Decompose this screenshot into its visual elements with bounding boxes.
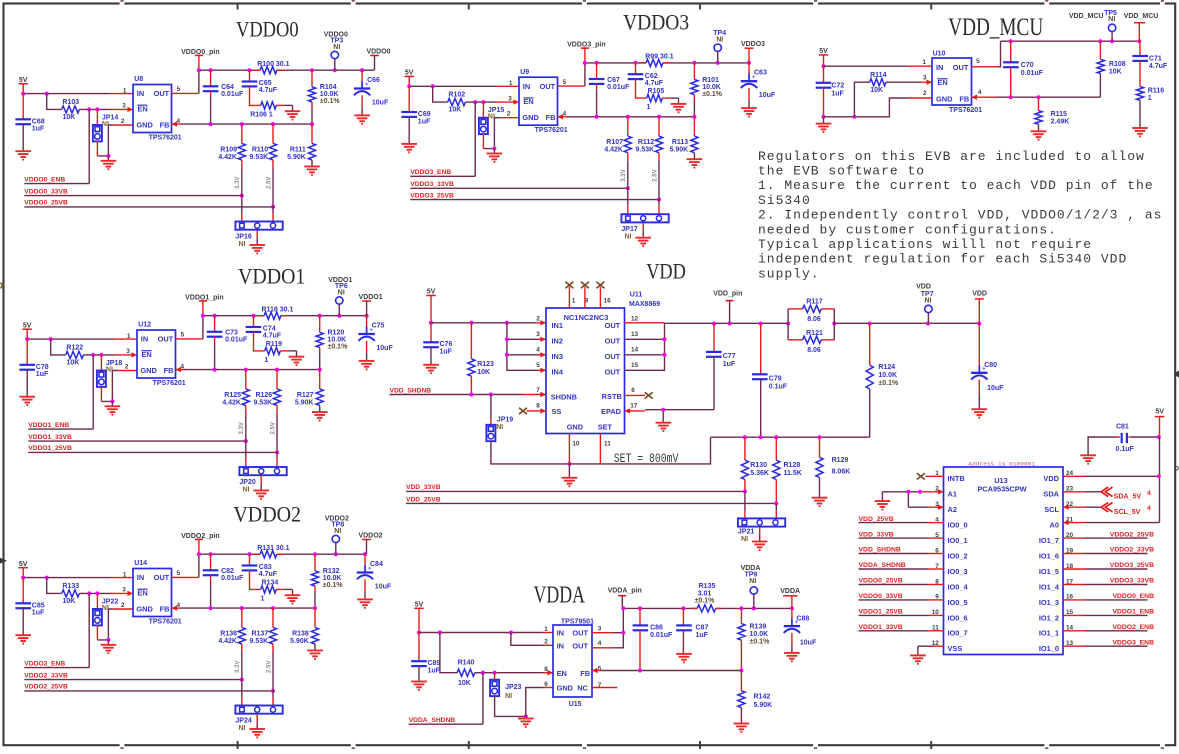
svg-text:12: 12: [631, 316, 639, 323]
svg-text:10uF: 10uF: [800, 639, 817, 646]
svg-text:JP24: JP24: [235, 718, 251, 725]
jumper JP21 NI: [738, 518, 785, 526]
svg-text:C79: C79: [769, 375, 782, 382]
resistor R102: [448, 99, 466, 106]
svg-text:R101: R101: [702, 77, 719, 84]
svg-text:NI: NI: [741, 536, 748, 543]
resistor R140 10K: [457, 669, 475, 676]
capacitor C85: [22, 578, 24, 604]
resistor R125 4.42K: [245, 370, 247, 389]
junction: [313, 552, 317, 556]
junction: [91, 353, 95, 357]
svg-text:8.06: 8.06: [807, 347, 821, 354]
svg-text:11: 11: [604, 441, 611, 448]
svg-text:2.5V: 2.5V: [270, 422, 276, 434]
svg-text:R130: R130: [750, 462, 767, 469]
svg-text:IN4: IN4: [552, 368, 564, 377]
svg-text:U10: U10: [933, 51, 946, 58]
ground: [307, 651, 323, 659]
no-connect NC2: [584, 287, 586, 308]
jumper JP17 NI: [621, 214, 668, 222]
svg-text:5: 5: [976, 58, 980, 65]
svg-text:VDDO1: VDDO1: [359, 294, 383, 301]
junction: [638, 669, 642, 673]
svg-text:0.01uF: 0.01uF: [221, 575, 244, 582]
svg-text:JP23: JP23: [505, 684, 521, 691]
junction: [1009, 95, 1013, 99]
capacitor C68: [22, 94, 24, 120]
svg-text:OUT: OUT: [572, 629, 588, 638]
junction: [743, 489, 747, 493]
wire 5V rail: [824, 65, 909, 67]
junction: [492, 147, 496, 151]
ground: [260, 476, 262, 484]
svg-text:SET = 800mV: SET = 800mV: [614, 452, 679, 466]
junction: [25, 337, 29, 341]
svg-text:VDDO2_25VB: VDDO2_25VB: [24, 684, 68, 691]
svg-text:0.1uF: 0.1uF: [1116, 446, 1135, 453]
svg-text:±0.1%: ±0.1%: [750, 638, 771, 645]
svg-text:4: 4: [978, 89, 982, 96]
svg-text:IO0_1: IO0_1: [948, 536, 968, 545]
svg-text:C78: C78: [36, 364, 49, 371]
svg-text:VDD: VDD: [916, 284, 931, 291]
svg-text:10K: 10K: [477, 369, 490, 376]
svg-text:R126: R126: [255, 392, 272, 399]
junction: [438, 631, 442, 635]
wire output rail: [665, 322, 789, 324]
wire: [823, 55, 825, 66]
svg-text:0.01uF: 0.01uF: [221, 91, 244, 98]
offpage SDA_5V: [1101, 487, 1113, 496]
pin arrow FB: [172, 605, 178, 610]
capacitor C74 4.7uF: [253, 316, 255, 327]
svg-text:3: 3: [536, 331, 540, 338]
junction: [240, 606, 244, 610]
svg-text:R138: R138: [292, 630, 309, 637]
junction: [21, 92, 25, 96]
ground: [734, 724, 750, 732]
svg-text:10K: 10K: [66, 359, 79, 366]
svg-text:9.53K: 9.53K: [636, 147, 655, 154]
junction: [774, 501, 778, 505]
svg-text:5.90K: 5.90K: [670, 147, 689, 154]
notes text: [758, 149, 1162, 282]
svg-text:R103: R103: [62, 99, 79, 106]
ground: [676, 654, 692, 662]
regulator U15 TPS79501: [553, 625, 592, 697]
wire FB rail: [172, 123, 182, 125]
svg-text:R102: R102: [448, 92, 465, 99]
resistor R105 1: [647, 95, 663, 102]
ground: [296, 351, 298, 357]
wire: [100, 386, 102, 401]
no-connect RSTB pin 6: [625, 394, 646, 396]
svg-text:JP19: JP19: [497, 417, 513, 424]
resistor R118 30.1: [264, 312, 281, 319]
jumper JP14 NI: [96, 109, 98, 125]
junction: [271, 122, 275, 126]
svg-text:R106 1: R106 1: [250, 111, 273, 118]
svg-text:10.0K: 10.0K: [320, 91, 339, 98]
svg-text:FB: FB: [160, 121, 170, 130]
svg-text:14: 14: [631, 347, 639, 354]
svg-text:VSS: VSS: [948, 644, 963, 653]
svg-text:2: 2: [544, 639, 548, 646]
svg-text:SCL_5V: SCL_5V: [1114, 509, 1141, 516]
svg-text:IO1_6: IO1_6: [1039, 551, 1059, 560]
svg-text:OUT: OUT: [540, 82, 556, 91]
svg-text:R127: R127: [297, 392, 314, 399]
svg-text:VDD_MCU: VDD_MCU: [1124, 13, 1159, 20]
junction: [271, 689, 275, 693]
ground: [1080, 455, 1096, 463]
junction: [692, 61, 696, 65]
junction: [657, 198, 661, 202]
wire: [475, 672, 543, 674]
svg-text:C65: C65: [259, 80, 272, 87]
junction: [95, 591, 99, 595]
svg-text:C64: C64: [221, 84, 234, 91]
svg-text:U12: U12: [138, 322, 151, 329]
junction: [431, 84, 435, 88]
svg-text:VDDA: VDDA: [534, 581, 586, 608]
svg-text:R134: R134: [262, 579, 279, 586]
junction: [489, 393, 493, 397]
frame tick: [468, 5, 470, 10]
junction: [252, 314, 256, 318]
svg-text:C63: C63: [754, 70, 767, 77]
wire VDD pin 24: [1063, 475, 1085, 477]
capacitor C65 4.7uF: [249, 70, 251, 81]
wire GND pin 2: [113, 608, 133, 610]
junction: [360, 68, 364, 72]
ground: [687, 159, 703, 167]
wire: [408, 77, 410, 86]
svg-text:VDDO2: VDDO2: [233, 502, 301, 527]
svg-text:R109: R109: [220, 146, 237, 153]
svg-text:MAX8869: MAX8869: [629, 301, 660, 308]
svg-text:VDDO3_33VB: VDDO3_33VB: [410, 181, 454, 188]
svg-text:R112: R112: [638, 139, 654, 146]
svg-text:TPS76201: TPS76201: [535, 127, 568, 134]
svg-text:3.3V: 3.3V: [235, 177, 241, 189]
junction: [661, 408, 665, 412]
svg-text:VDD_33VB: VDD_33VB: [406, 484, 441, 491]
svg-text:5V: 5V: [1156, 409, 1165, 416]
junction: [469, 321, 473, 325]
ground: [642, 223, 644, 231]
resistor R113 5.90K: [693, 117, 695, 136]
svg-text:R142: R142: [754, 693, 771, 700]
svg-text:5V: 5V: [405, 70, 414, 77]
wire GND pin 6: [526, 688, 543, 717]
svg-text:1. Measure the current to each: 1. Measure the current to each VDD pin o…: [758, 178, 1154, 193]
regulator U12 TPS76201: [137, 330, 176, 378]
junction: [213, 314, 217, 318]
svg-text:NI: NI: [243, 486, 250, 493]
regulator U14 TPS76201: [133, 569, 172, 617]
wire: [495, 696, 526, 717]
svg-text:R117: R117: [806, 299, 822, 306]
pin arrow EN: [127, 591, 133, 596]
svg-text:VDD_25VB: VDD_25VB: [406, 496, 441, 503]
resistor R137 9.53K: [272, 608, 274, 627]
ground: [19, 397, 35, 405]
svg-text:10K: 10K: [62, 598, 75, 605]
svg-text:IO1_1: IO1_1: [1039, 629, 1059, 638]
svg-text:NI: NI: [749, 578, 756, 585]
svg-text:NI: NI: [496, 424, 503, 431]
junction: [209, 122, 213, 126]
svg-text:R120: R120: [328, 330, 345, 337]
ground: [359, 361, 375, 369]
junction: [275, 450, 279, 454]
wire OUT pin 5: [172, 92, 199, 94]
svg-text:VDDO1_ENB: VDDO1_ENB: [1112, 609, 1154, 616]
resistor R117 8.06: [787, 309, 789, 340]
svg-text:10uF: 10uF: [759, 92, 776, 99]
svg-text:C76: C76: [440, 341, 453, 348]
jumper JP16 NI: [235, 222, 282, 230]
svg-text:IO0_0: IO0_0: [948, 521, 968, 530]
ground: [15, 151, 31, 159]
svg-text:R108: R108: [1109, 61, 1126, 68]
wire: [276, 104, 285, 106]
jumper JP15 NI: [482, 102, 484, 118]
resistor R139 10.0K: [740, 608, 742, 623]
net VDDO3_ENB: [474, 102, 476, 176]
svg-text:±0.1%: ±0.1%: [328, 344, 349, 351]
svg-text:8.06K: 8.06K: [832, 469, 851, 476]
svg-text:R113: R113: [672, 139, 688, 146]
resistor R119 1: [265, 347, 281, 354]
ground: [411, 682, 427, 690]
wire: [430, 296, 432, 323]
svg-text:IN3: IN3: [552, 352, 564, 361]
regulator U11 MAX8869: [546, 308, 625, 434]
junction: [275, 368, 279, 372]
svg-text:NI: NI: [333, 44, 340, 51]
svg-text:±0.1%: ±0.1%: [702, 91, 723, 98]
junction: [45, 92, 49, 96]
resistor R133: [62, 590, 80, 597]
junction: [417, 631, 421, 635]
ground: [741, 108, 757, 116]
svg-text:FB: FB: [546, 113, 556, 122]
svg-text:VDDA: VDDA: [780, 588, 800, 595]
svg-text:GND: GND: [136, 121, 153, 130]
frame tick gap: [582, 2, 587, 6]
svg-text:VDDA_SHDNB: VDDA_SHDNB: [409, 717, 456, 724]
svg-text:A2: A2: [948, 505, 957, 514]
svg-text:VDDO2: VDDO2: [358, 532, 382, 539]
pin arrow SHDNB: [540, 392, 546, 397]
ground: [312, 412, 328, 420]
wire GND pin 2: [499, 117, 519, 119]
svg-text:R122: R122: [66, 344, 83, 351]
junction: [106, 154, 110, 158]
svg-text:VDD: VDD: [972, 290, 987, 297]
junction: [209, 606, 213, 610]
svg-text:SET: SET: [598, 423, 613, 432]
svg-text:3.3V: 3.3V: [621, 169, 627, 181]
junction: [657, 115, 661, 119]
wire A0 pin 21: [1063, 522, 1085, 524]
resistor R115 2.49K: [1038, 97, 1040, 110]
svg-text:±0.1%: ±0.1%: [695, 598, 716, 605]
svg-text:4.7uF: 4.7uF: [1149, 63, 1168, 70]
wire FB rail: [172, 607, 182, 609]
svg-text:4: 4: [1147, 490, 1151, 497]
svg-text:C83: C83: [259, 564, 272, 571]
svg-text:5: 5: [598, 665, 602, 672]
svg-text:9.53K: 9.53K: [250, 154, 269, 161]
svg-text:5: 5: [177, 570, 181, 577]
svg-text:R118 30.1: R118 30.1: [261, 306, 293, 313]
svg-text:R125: R125: [224, 392, 241, 399]
svg-text:VDDO3: VDDO3: [623, 10, 689, 35]
svg-text:JP17: JP17: [621, 226, 637, 233]
pin arrow EN: [127, 107, 133, 112]
svg-text:GND: GND: [522, 113, 539, 122]
svg-text:R115: R115: [1051, 111, 1067, 118]
svg-text:U9: U9: [520, 69, 529, 76]
svg-text:10uF: 10uF: [372, 99, 389, 106]
resistor R138 5.90K: [314, 608, 316, 627]
wire FB net: [972, 96, 997, 98]
svg-text:IO1_0: IO1_0: [1039, 644, 1059, 653]
svg-text:VDDO1_33VB: VDDO1_33VB: [28, 434, 72, 441]
capacitor C87 1uF: [682, 608, 684, 625]
svg-text:2: 2: [536, 316, 540, 323]
junction: [918, 490, 922, 494]
svg-text:5: 5: [177, 86, 181, 93]
svg-text:FB: FB: [160, 605, 170, 614]
svg-text:GND: GND: [140, 366, 157, 375]
resistor R134 1: [261, 586, 277, 593]
junction: [663, 337, 667, 341]
svg-text:D: D: [1174, 466, 1179, 473]
resistor R130 5.36K: [744, 437, 746, 460]
resistor R129 8.06K: [819, 437, 821, 457]
junction: [106, 638, 110, 642]
net VDDA_SHDNB: [482, 673, 484, 725]
svg-text:6: 6: [631, 387, 635, 394]
svg-text:VDDO0_25VB: VDDO0_25VB: [859, 578, 903, 585]
svg-text:10K: 10K: [458, 680, 471, 687]
wire: [418, 609, 420, 633]
svg-text:R123: R123: [477, 361, 494, 368]
wire OUT pin 5: [558, 85, 585, 87]
wire OUT pin 5: [972, 66, 998, 68]
no-connect NC3: [599, 287, 601, 308]
svg-text:SDA_5V: SDA_5V: [1114, 493, 1142, 500]
svg-text:R116: R116: [1148, 88, 1164, 95]
svg-text:VDDO0: VDDO0: [366, 48, 390, 55]
jumper JP22 NI: [96, 593, 98, 609]
resistor R136 4.42K: [241, 608, 243, 627]
capacitor C78: [26, 339, 28, 365]
svg-text:1: 1: [123, 87, 127, 94]
junction: [21, 576, 25, 580]
junction: [595, 61, 599, 65]
junction: [1037, 95, 1041, 99]
svg-text:Address is 0100001: Address is 0100001: [968, 461, 1035, 468]
svg-text:IO1_3: IO1_3: [1039, 598, 1059, 607]
svg-text:IO1_7: IO1_7: [1039, 536, 1059, 545]
svg-text:NI: NI: [338, 289, 345, 296]
svg-text:the EVB software to: the EVB software to: [758, 164, 925, 179]
svg-text:1: 1: [647, 104, 651, 111]
svg-text:2: 2: [507, 111, 511, 118]
resistor R116 1: [1136, 87, 1143, 101]
svg-text:VDDO1: VDDO1: [238, 264, 305, 289]
svg-text:OUT: OUT: [572, 641, 588, 650]
frame tick: [930, 5, 932, 10]
svg-text:R110: R110: [252, 146, 268, 153]
resistor R101 10.0K: [693, 63, 695, 80]
ground: [354, 115, 370, 123]
ground: [812, 498, 828, 506]
svg-text:FB: FB: [164, 366, 174, 375]
junction: [473, 100, 477, 104]
capacitor C80 10uF: [978, 324, 980, 366]
junction: [1009, 39, 1013, 43]
ground: [256, 715, 258, 723]
svg-text:JP21: JP21: [738, 529, 754, 536]
junction: [310, 68, 314, 72]
ground: [1031, 131, 1047, 139]
svg-text:1: 1: [127, 333, 131, 340]
svg-text:3.3V: 3.3V: [239, 422, 245, 434]
capacitor C67 0.01uF: [596, 63, 598, 79]
svg-text:3: 3: [923, 74, 927, 81]
no-connect NC1: [568, 287, 570, 308]
svg-text:1: 1: [123, 571, 127, 578]
svg-text:10uF: 10uF: [376, 345, 393, 352]
jumper JP24 NI: [235, 706, 282, 714]
svg-text:R107: R107: [606, 139, 623, 146]
capacitor C72 1uF: [823, 66, 825, 83]
svg-text:IO0_3: IO0_3: [948, 567, 968, 576]
resistor R126 9.53K: [276, 370, 278, 389]
wire: [26, 330, 28, 339]
ground: [759, 527, 761, 535]
svg-text:10uF: 10uF: [375, 583, 392, 590]
svg-text:0.01uF: 0.01uF: [607, 84, 630, 91]
svg-text:3: 3: [122, 103, 126, 110]
svg-text:0.01uF: 0.01uF: [650, 632, 673, 639]
svg-text:VDDO2_33VB: VDDO2_33VB: [24, 672, 68, 679]
wire: [491, 441, 570, 464]
capacitor C73 0.01uF: [214, 316, 216, 332]
svg-text:10K: 10K: [448, 107, 461, 114]
pin arrow FB: [972, 95, 978, 100]
svg-text:C88: C88: [796, 616, 809, 623]
svg-text:VDDO3_ENB: VDDO3_ENB: [410, 169, 451, 176]
junction: [318, 368, 322, 372]
svg-text:1uF: 1uF: [440, 348, 453, 355]
svg-text:VDDO2_25VB: VDDO2_25VB: [1110, 531, 1154, 538]
svg-text:11.5K: 11.5K: [784, 470, 802, 477]
svg-text:IN: IN: [557, 629, 564, 638]
pin arrow EN: [547, 670, 553, 675]
ground: [292, 589, 294, 595]
resistor R123 10K: [470, 323, 472, 359]
svg-text:7: 7: [536, 387, 540, 394]
junction: [363, 552, 367, 556]
